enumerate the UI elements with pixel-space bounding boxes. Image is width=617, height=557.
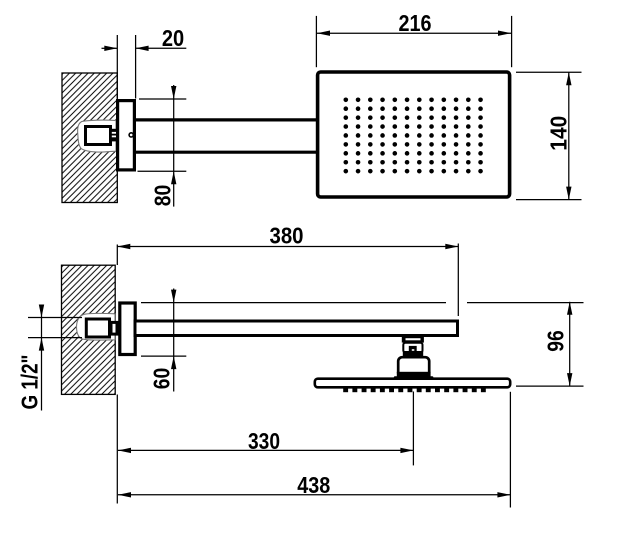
dimension 330 [117, 392, 413, 504]
shower arm top view [135, 120, 318, 152]
wall flange (escutcheon) bottom view [120, 303, 135, 355]
svg-text:438: 438 [297, 472, 330, 498]
svg-text:80: 80 [149, 185, 175, 207]
pipe socket bottom view [86, 319, 109, 337]
svg-text:20: 20 [162, 25, 184, 51]
svg-text:G 1/2": G 1/2" [17, 355, 43, 410]
threaded nipple top view [110, 129, 117, 142]
wall recess blob top view [78, 120, 116, 152]
svg-text:60: 60 [149, 368, 175, 390]
dimension 140 [516, 72, 582, 199]
dimension 60 (and 96 top reference line) [141, 289, 584, 392]
dimension 20 [102, 35, 187, 99]
dimension 80 [138, 85, 187, 207]
nozzle teeth under slab [343, 388, 486, 392]
wall recess blob bottom view [77, 313, 116, 340]
wall flange (escutcheon) top view [118, 101, 135, 170]
ball joint: lower body [394, 357, 434, 378]
screw detail on flange [129, 133, 133, 137]
svg-text:216: 216 [399, 10, 432, 36]
shower arm bottom view [135, 321, 458, 336]
svg-text:330: 330 [248, 428, 280, 454]
ball joint: nut under arm [402, 337, 424, 343]
shower head top view [318, 72, 510, 197]
nozzle dot grid [344, 98, 483, 174]
pipe socket top view [86, 127, 111, 145]
wall (hatched) bottom view [62, 265, 116, 394]
ball joint: middle swivel [403, 343, 423, 357]
dimension 216 [316, 16, 511, 67]
svg-text:140: 140 [545, 116, 571, 151]
dimension 380 [117, 244, 458, 317]
shower head slab (side view) [315, 379, 510, 388]
wall (hatched) top view [62, 73, 117, 203]
svg-text:380: 380 [270, 223, 304, 249]
threaded nipple bottom view [111, 322, 117, 334]
dimension G 1/2" [28, 305, 82, 411]
dimension 96 [516, 302, 584, 386]
svg-text:96: 96 [543, 330, 569, 352]
dimension 438 [118, 392, 510, 508]
